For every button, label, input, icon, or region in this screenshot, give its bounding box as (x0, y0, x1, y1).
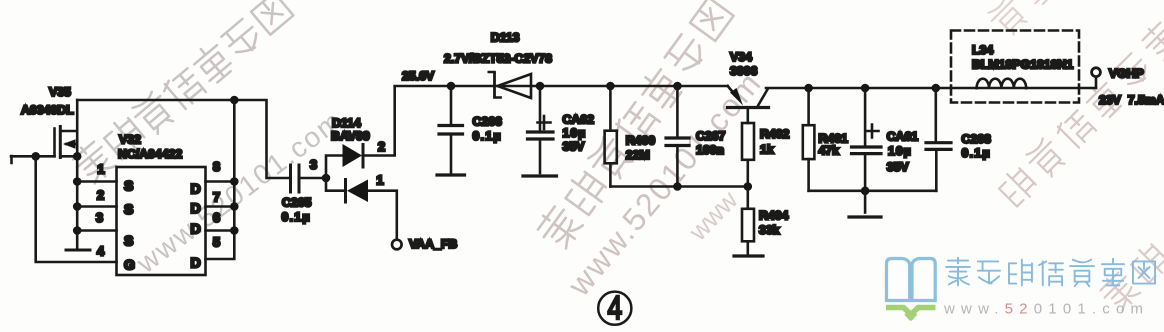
svg-text:10µ: 10µ (888, 144, 912, 158)
svg-text:S: S (124, 233, 133, 249)
svg-text:V35: V35 (49, 85, 71, 99)
node C267 top (673, 82, 682, 91)
node sheet number 4 (598, 290, 631, 326)
svg-text:0.1µ: 0.1µ (962, 146, 991, 160)
svg-text:BLM18PG1818N1: BLM18PG1818N1 (972, 58, 1073, 72)
wire CA61 to ground (864, 191, 867, 213)
svg-text:D: D (191, 255, 201, 271)
resistor R400 (605, 86, 656, 187)
svg-text:100n: 100n (696, 143, 724, 157)
node R400 top (606, 82, 615, 91)
node gate junction (31, 152, 40, 161)
wire drain bus (233, 100, 236, 231)
wire pin6 (206, 229, 235, 232)
svg-text:0.1µ: 0.1µ (473, 129, 502, 143)
wire bottom bus left (610, 185, 747, 188)
node pin2 (73, 202, 82, 211)
svg-text:D114: D114 (332, 116, 361, 130)
svg-text:S: S (124, 201, 133, 217)
capacitor C265 (282, 165, 312, 224)
svg-text:1k: 1k (760, 143, 774, 157)
svg-text:1: 1 (376, 173, 383, 188)
svg-text:35V: 35V (563, 140, 586, 154)
svg-text:A0340DL: A0340DL (21, 103, 74, 117)
svg-text:C267: C267 (696, 129, 726, 143)
svg-text:22M: 22M (626, 148, 650, 162)
node CA61 top (861, 84, 870, 93)
node C267 bottom (673, 182, 682, 191)
inductor L34 dashed box (951, 31, 1079, 103)
node VAA_FB terminal (392, 240, 402, 250)
svg-text:4: 4 (97, 244, 105, 259)
svg-text:V32: V32 (119, 133, 141, 147)
resistor R401 (803, 88, 848, 191)
svg-text:5: 5 (213, 235, 220, 250)
diode D113 zener (444, 31, 552, 99)
svg-text:R400: R400 (626, 134, 656, 148)
wire source bus down (76, 156, 79, 248)
svg-text:C268: C268 (962, 132, 992, 146)
wire pin7 (206, 205, 235, 208)
svg-text:C266: C266 (473, 115, 503, 129)
svg-text:CA61: CA61 (887, 130, 919, 144)
node R401 top (804, 84, 813, 93)
transistor V34 pnp (728, 50, 769, 123)
wire top-left rail (77, 100, 289, 178)
capacitor CA62 polar (528, 86, 595, 173)
node pin7 (230, 202, 239, 211)
wire C265 to D114 (301, 177, 327, 180)
svg-text:S: S (124, 178, 133, 194)
ground C266 (437, 173, 465, 176)
capacitor C267 (666, 86, 726, 187)
wire gate down to pin4 (36, 156, 117, 262)
svg-text:1: 1 (97, 162, 104, 177)
svg-text:VGHP: VGHP (1109, 67, 1144, 81)
node pin6 (230, 226, 239, 235)
svg-text:10µ: 10µ (563, 126, 587, 140)
inductor L34 winding (977, 79, 1027, 89)
node VGHP terminal (1092, 68, 1101, 77)
ground CA62 (523, 174, 557, 177)
wire gate left (11, 156, 55, 163)
logo book icon (887, 259, 936, 301)
node R402 bottom (744, 182, 753, 191)
capacitor C268 (926, 88, 991, 191)
IC V32 NC/A04422 body (96, 133, 220, 276)
diode D114a top (326, 87, 395, 179)
svg-text:25.6V: 25.6V (402, 69, 435, 83)
svg-text:8: 8 (213, 159, 220, 174)
wire pin8 (206, 180, 235, 183)
svg-text:BAV99: BAV99 (331, 129, 370, 143)
svg-text:G: G (124, 257, 135, 273)
resistor R404 (742, 187, 789, 255)
node rail to IC drains (230, 96, 239, 105)
svg-text:CA62: CA62 (563, 113, 595, 127)
logo hanzi text (946, 258, 1155, 287)
node CA61 bottom (861, 187, 870, 196)
svg-text:3: 3 (96, 210, 103, 225)
wire pin1 (77, 180, 116, 183)
svg-text:D: D (191, 221, 201, 237)
svg-text:33k: 33k (759, 223, 780, 237)
watermark diagonal hanzi left (69, 0, 294, 187)
wire bottom bus right (809, 190, 937, 193)
watermark fragment top right (986, 0, 1058, 39)
ground CA61 (849, 215, 881, 218)
resistor R402 (742, 123, 790, 187)
wire pin2 (77, 205, 116, 208)
svg-text:D113: D113 (491, 31, 520, 45)
svg-text:www.520101.com: www.520101.com (943, 301, 1149, 318)
transistor V35 A0340DL mosfet (21, 85, 77, 158)
watermark diagonal hanzi middle (533, 0, 733, 252)
node CA62 top (536, 82, 545, 91)
ground R404 (734, 254, 763, 257)
ground under source bus (66, 249, 90, 252)
wire main rail left (395, 85, 728, 88)
svg-text:VAA_FB: VAA_FB (409, 237, 457, 251)
svg-text:NC/A04422: NC/A04422 (118, 147, 182, 161)
svg-text:C265: C265 (282, 196, 312, 210)
node pin1 (73, 177, 82, 186)
svg-text:R404: R404 (759, 209, 789, 223)
svg-text:47k: 47k (819, 144, 840, 158)
svg-text:L34: L34 (972, 43, 993, 57)
svg-text:2.7V/BZT52-C2V78: 2.7V/BZT52-C2V78 (444, 52, 552, 66)
node pin3 (73, 226, 82, 235)
node V35 source junction (73, 152, 82, 161)
node C268 top (932, 84, 941, 93)
node pin8 (230, 177, 239, 186)
node D114 common (322, 174, 331, 183)
svg-text:23V 7.5mA: 23V 7.5mA (1099, 93, 1164, 107)
svg-text:R402: R402 (760, 127, 790, 141)
svg-text:V34: V34 (730, 50, 752, 64)
svg-text:3: 3 (310, 157, 317, 172)
svg-text:D: D (191, 200, 201, 216)
svg-text:3906: 3906 (730, 64, 758, 78)
svg-text:35V: 35V (887, 160, 910, 174)
wire main rail right (766, 87, 1096, 90)
node C266 top (447, 82, 456, 91)
svg-text:0.1µ: 0.1µ (282, 210, 311, 224)
capacitor CA61 polar (852, 88, 919, 191)
wire pin3 (77, 229, 116, 232)
wire to VGHP (1095, 77, 1098, 88)
capacitor C266 (439, 86, 502, 173)
wire V35 drain up to top rail (76, 100, 79, 156)
svg-text:2: 2 (97, 188, 104, 203)
logo green underline (886, 308, 936, 315)
watermark diagonal hanzi right (996, 18, 1164, 208)
wire pin5 up (206, 231, 235, 260)
svg-text:D: D (191, 181, 201, 197)
svg-text:7: 7 (213, 190, 220, 205)
svg-text:4: 4 (607, 290, 622, 326)
diode D114b bottom (326, 173, 397, 240)
svg-text:2: 2 (378, 139, 385, 154)
svg-text:6: 6 (213, 210, 220, 225)
watermark hanzi bottom right corner (1096, 241, 1164, 314)
